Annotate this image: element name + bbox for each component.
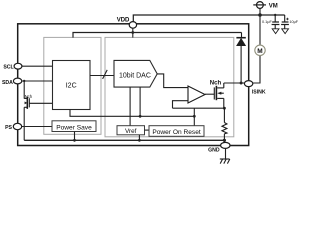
svg-text:GND: GND — [208, 148, 220, 154]
ground (C1) — [272, 29, 279, 34]
wire VDD pin drop — [132, 28, 134, 37]
wire SCL — [22, 65, 53, 67]
node VDD rail junction — [131, 31, 134, 34]
wire SDA pulldown source — [23, 107, 25, 140]
digital section gray box — [44, 37, 101, 134]
motor M1 — [255, 45, 265, 55]
pin ISINK — [244, 81, 252, 87]
terminal VM — [253, 2, 266, 9]
ground symbol — [220, 159, 230, 164]
wire POR drop — [193, 108, 195, 126]
wire op-amp inverting input hook — [173, 101, 189, 109]
node diode anode junction — [240, 82, 243, 85]
node C1 junction — [274, 14, 276, 16]
wire VDD top rail — [133, 15, 284, 22]
block 10bit DAC — [114, 60, 157, 87]
svg-text:M: M — [257, 48, 262, 55]
block Power Save — [52, 121, 96, 132]
svg-text:Power On Reset: Power On Reset — [152, 129, 201, 136]
bus slash — [103, 70, 108, 79]
pin SDA — [13, 78, 21, 84]
block I2C — [53, 61, 91, 110]
node VM junction — [258, 13, 262, 17]
resistor R1 sense — [222, 108, 227, 142]
wire ISINK drain — [224, 82, 245, 84]
wire I2C bus to DAC — [90, 75, 114, 77]
svg-text:VDD: VDD — [117, 17, 130, 23]
node wireC-POR junction — [193, 115, 196, 118]
wire DAC pin2 down — [139, 87, 141, 116]
wire ground rail — [24, 139, 224, 141]
node feedback junction — [223, 107, 226, 110]
svg-text:ISINK: ISINK — [252, 90, 266, 96]
diode D1 flyback — [236, 33, 245, 84]
wire motor feed — [259, 15, 261, 45]
block Power On Reset — [149, 126, 204, 137]
wire DAC to Vref — [129, 87, 131, 126]
svg-text:Nch: Nch — [25, 94, 33, 99]
svg-text:Nch: Nch — [210, 80, 222, 86]
svg-text:0.1μF: 0.1μF — [262, 20, 272, 24]
node SDA junction — [23, 80, 25, 82]
node DAC pin2 junction — [139, 115, 142, 118]
wire vref to rail — [138, 135, 140, 141]
wire VDD internal rail — [73, 33, 242, 38]
wire I2C bottom to rail C — [70, 110, 194, 117]
wire motor to ISINK — [253, 55, 260, 83]
analog section gray box — [105, 37, 234, 136]
wire op-amp to gate — [205, 93, 214, 95]
svg-text:Vref: Vref — [125, 128, 137, 135]
svg-text:SCL: SCL — [3, 64, 14, 70]
wire PS — [22, 126, 52, 128]
wire feedback A — [173, 107, 225, 109]
svg-text:Power Save: Power Save — [56, 124, 92, 131]
pin PS — [13, 123, 21, 129]
pin VDD — [129, 22, 136, 29]
wire SDA pulldown drain — [23, 81, 25, 99]
node power save gnd junction — [73, 139, 76, 142]
svg-text:10bit DAC: 10bit DAC — [119, 73, 151, 80]
capacitor C1 0.1uF — [272, 15, 280, 29]
transistor Q1 Nch SDA pulldown — [24, 97, 52, 109]
wire power save to rail — [74, 132, 76, 141]
block Vref — [117, 126, 145, 135]
op-amp U1 — [188, 86, 205, 103]
wire GND stub — [225, 148, 227, 159]
svg-text:I2C: I2C — [66, 82, 77, 89]
pin GND — [221, 142, 230, 148]
svg-text:PS: PS — [5, 125, 12, 131]
wire VM stub — [259, 8, 261, 15]
transistor Q2 Nch output — [214, 83, 224, 108]
IC outer boundary box — [18, 24, 249, 146]
pin SCL — [14, 63, 22, 69]
svg-text:10μF: 10μF — [289, 20, 298, 24]
node vref gnd junction — [138, 139, 141, 142]
wire SDA — [22, 80, 53, 82]
capacitor C2 10uF — [281, 15, 289, 29]
wire DAC output to op-amp — [157, 74, 188, 88]
svg-text:VM: VM — [269, 3, 278, 9]
node resistor gnd junction — [223, 139, 226, 142]
svg-text:SDA: SDA — [2, 80, 13, 86]
wire vref to POR — [145, 129, 150, 131]
ground (C2) — [282, 29, 289, 34]
